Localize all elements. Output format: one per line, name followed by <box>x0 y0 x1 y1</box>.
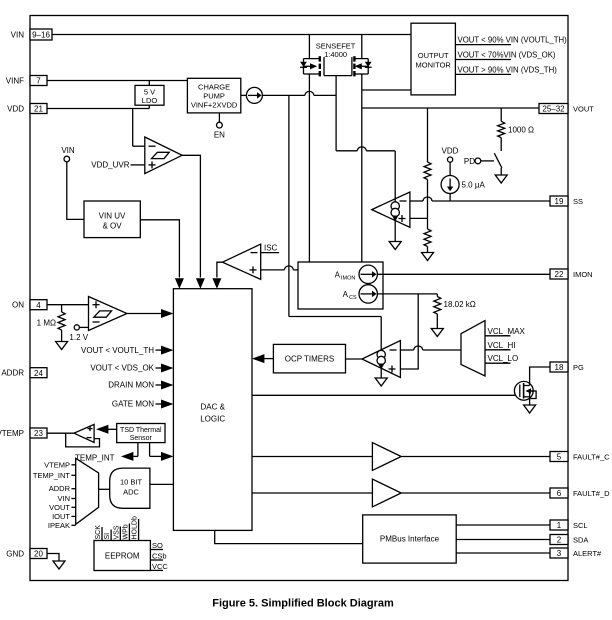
node GATE MON input label and arrow <box>112 400 173 409</box>
svg-text:/VTEMP: /VTEMP <box>0 429 24 438</box>
current source CP output arrow circle <box>241 87 263 103</box>
pin IMON 22 <box>550 269 593 279</box>
svg-text:22: 22 <box>555 270 564 279</box>
svg-text:ADDR: ADDR <box>1 369 24 378</box>
wire ON comparator output arrow into DAC <box>127 309 173 318</box>
resistor 18.02 kohm <box>434 294 441 329</box>
pin GND 20 <box>6 549 47 559</box>
svg-text:FAULT#_D: FAULT#_D <box>573 489 610 498</box>
terminal EN <box>217 113 223 128</box>
wire TSD drop right <box>149 443 151 457</box>
svg-text:ALERT#: ALERT# <box>573 549 602 558</box>
pin PG 18 <box>550 362 584 372</box>
wire LDO output to VDD rail <box>148 105 150 108</box>
node DRAIN MON input label and arrow <box>108 381 173 390</box>
wire ISC plus input to Acs block (hop over pump drop) <box>261 266 298 270</box>
pin EEPROM WPb <box>122 524 129 541</box>
node VOUTL_TH output with label <box>455 36 567 45</box>
svg-text:EN: EN <box>214 131 225 140</box>
block OCP timers <box>273 344 345 373</box>
pin SCL 1 <box>550 520 588 530</box>
pin SS 19 <box>550 196 583 206</box>
svg-text:Sensor: Sensor <box>130 435 153 442</box>
pin VIN 9-16 <box>11 29 52 40</box>
svg-text:VINF+2XVDD: VINF+2XVDD <box>191 101 238 110</box>
resistor 1 Mohm <box>58 305 65 342</box>
ground below U_SS <box>389 242 401 250</box>
wire Q3 drain to pin 18 <box>530 367 550 386</box>
sensefet label <box>316 42 356 60</box>
wire DAC to FAULT D buffer <box>252 492 372 494</box>
current source inside U_OCP <box>377 317 385 379</box>
svg-text:ISC: ISC <box>264 244 278 253</box>
svg-text:TEMP_INT: TEMP_INT <box>33 471 71 480</box>
terminal VDD for soft start source <box>442 147 459 176</box>
block TSD thermal sensor <box>117 424 165 443</box>
pin ADDR 24 <box>1 368 47 378</box>
ground below 18.02k <box>431 329 443 337</box>
svg-text:25–32: 25–32 <box>542 105 565 114</box>
svg-text:Figure 5. Simplified Block Dia: Figure 5. Simplified Block Diagram <box>212 598 394 610</box>
svg-text:VIN: VIN <box>61 146 75 155</box>
pin FAULT#_D 6 <box>550 488 610 498</box>
wire VDD_UVR output down to DAC <box>182 155 200 277</box>
svg-text:EEPROM: EEPROM <box>105 552 140 561</box>
wire VINF to LDO input <box>148 81 150 86</box>
svg-text:SO: SO <box>152 541 163 550</box>
ground below U_OCP <box>375 378 387 386</box>
wire FAULT D buffer to pin 6 <box>401 492 550 494</box>
svg-text:CHARGE: CHARGE <box>198 83 230 92</box>
svg-text:FAULT#_C: FAULT#_C <box>573 453 610 462</box>
wire VINF to charge pump <box>47 80 187 82</box>
svg-text:VTEMP: VTEMP <box>44 460 70 469</box>
svg-text:TSD Thermal: TSD Thermal <box>120 427 162 434</box>
svg-text:1 MΩ: 1 MΩ <box>37 319 56 328</box>
pin EEPROM SO <box>150 541 163 550</box>
transistor Q2 sense FET <box>352 56 368 76</box>
pin EEPROM SCK <box>95 525 102 541</box>
svg-text:CSb: CSb <box>152 552 167 561</box>
node TEMP_INT label with left arrow <box>75 452 138 463</box>
svg-text:A: A <box>343 290 349 299</box>
node VIN funnel input <box>57 494 75 503</box>
svg-text:VIN UV: VIN UV <box>99 212 126 221</box>
arrow into DAC top from ISC <box>212 278 221 289</box>
svg-text:VOUT < 70%VIN (VDS_OK): VOUT < 70%VIN (VDS_OK) <box>458 51 556 60</box>
svg-text:5: 5 <box>557 453 562 462</box>
svg-text:VOUT > 90% VIN (VDS_TH): VOUT > 90% VIN (VDS_TH) <box>458 65 558 74</box>
resistor divider upper from VOUT <box>424 108 431 218</box>
svg-text:7: 7 <box>36 77 41 86</box>
node VTEMP funnel input <box>44 460 76 469</box>
svg-text:9–16: 9–16 <box>32 31 50 40</box>
svg-text:VCL_LO: VCL_LO <box>488 354 519 363</box>
pin EEPROM CSb <box>150 552 166 561</box>
comparator U_SS soft start <box>372 192 410 227</box>
wire Q2 source down to VOUT and Acs block <box>361 74 363 262</box>
svg-text:VCC: VCC <box>152 562 168 571</box>
svg-text:5.0 µA: 5.0 µA <box>462 181 486 190</box>
svg-text:VSS: VSS <box>113 525 120 539</box>
ground below Q3 <box>524 405 536 413</box>
svg-text:SCL: SCL <box>573 521 588 530</box>
wire pin 23 to TSD comparator output <box>47 432 74 434</box>
block DAC and LOGIC <box>173 289 252 531</box>
wire funnel to ADC <box>99 488 110 490</box>
svg-text:GND: GND <box>6 550 24 559</box>
svg-text:MONITOR: MONITOR <box>416 61 452 70</box>
resistor 1000 ohm <box>498 108 505 151</box>
pin ALERT# 3 <box>550 548 602 558</box>
svg-text:10 BIT: 10 BIT <box>120 478 143 487</box>
wire PMBus to pin 2 <box>456 539 550 541</box>
node VOUT lt VOUTL_TH input label and arrow <box>81 346 173 355</box>
wire ISC output to DAC top <box>217 262 223 277</box>
node IPEAK funnel input <box>48 521 76 530</box>
svg-text:VOUT < 90% VIN (VOUTL_TH): VOUT < 90% VIN (VOUTL_TH) <box>458 36 568 45</box>
transistor Q1 main pass FET <box>304 56 325 76</box>
svg-text:SCK: SCK <box>95 525 102 540</box>
wire TSD comparator feedback loop <box>66 433 100 447</box>
svg-text:DAC &: DAC & <box>200 403 225 412</box>
svg-text:VDD: VDD <box>7 105 24 114</box>
wire Q1 source down to Acs block <box>308 74 310 262</box>
pin EEPROM VSS <box>113 525 120 540</box>
wire DAC bottom to PMBus <box>215 530 363 543</box>
svg-text:IPEAK: IPEAK <box>48 521 70 530</box>
mux VCL clamp select <box>461 321 485 376</box>
pin VINF 7 <box>6 76 47 86</box>
block U_CP charge pump <box>187 78 240 113</box>
wire OCP minus to VCL mux (hop over tap) <box>400 346 461 350</box>
arrow into DAC top from VDD_UVR <box>196 278 205 289</box>
svg-text:VDD: VDD <box>442 147 459 156</box>
wire DAC to PG FET gate <box>252 394 515 396</box>
wire ON pin to comparator plus <box>47 304 89 306</box>
svg-text:& OV: & OV <box>102 222 122 231</box>
wire left FET drain from VIN rail <box>308 35 310 59</box>
node VOUT funnel input <box>49 503 76 512</box>
wire OCP comparator output to OCP timers <box>346 358 363 360</box>
wire GND pin to ground <box>47 554 59 562</box>
wire TSD drop left <box>137 443 139 457</box>
svg-text:DRAIN MON: DRAIN MON <box>108 381 154 390</box>
node IOUT funnel input <box>52 512 76 521</box>
svg-text:VOUT < VOUTL_TH: VOUT < VOUTL_TH <box>81 346 154 355</box>
pin EEPROM VCC <box>150 562 168 571</box>
svg-text:WPb: WPb <box>122 524 129 539</box>
svg-text:PMBus Interface: PMBus Interface <box>380 535 440 544</box>
terminal PD <box>464 157 494 166</box>
svg-text:24: 24 <box>34 369 43 378</box>
svg-text:SDA: SDA <box>573 536 588 545</box>
svg-text:18.02 kΩ: 18.02 kΩ <box>444 300 476 309</box>
wire VOUT rail <box>362 107 539 109</box>
ground below divider <box>422 253 434 261</box>
comparator U_OCP <box>362 341 400 378</box>
svg-text:IOUT: IOUT <box>52 512 70 521</box>
current source 5.0 uA <box>441 176 459 202</box>
node VDS_TH output with label <box>455 65 557 74</box>
comparator U_UVR VDD_UVR <box>131 109 183 174</box>
amplifier A_IMON circle <box>359 265 377 283</box>
svg-text:VOUT: VOUT <box>573 105 594 114</box>
wire gate center tap down <box>335 76 337 151</box>
wire A_CS tap down to OCP plus input <box>400 294 418 369</box>
svg-text:VCL_HI: VCL_HI <box>488 341 516 350</box>
node ADDR funnel input <box>49 484 76 493</box>
svg-text:PUMP: PUMP <box>203 92 225 101</box>
svg-text:20: 20 <box>34 550 43 559</box>
svg-text:LDO: LDO <box>142 96 158 105</box>
wire PMBus to pin 1 <box>456 524 550 526</box>
svg-text:19: 19 <box>555 197 564 206</box>
svg-text:SI: SI <box>104 533 111 540</box>
svg-text:VOUT < VDS_OK: VOUT < VDS_OK <box>90 364 154 373</box>
buffer U_FC <box>372 443 401 471</box>
pin VTEMP 23 <box>0 428 47 438</box>
wire pump feed horizontal to OCP current source <box>289 316 381 318</box>
block EEPROM <box>94 541 150 571</box>
block output monitor <box>411 23 455 95</box>
wire Q2 source to output monitor <box>362 89 411 91</box>
wire charge pump output to gate node (hop over source line) <box>262 91 336 95</box>
wire TEMP_INT arrow into DAC <box>150 452 174 461</box>
node TEMP_INT funnel input <box>33 471 76 480</box>
svg-text:HOLDb: HOLDb <box>132 516 139 539</box>
pin EEPROM SI <box>104 530 111 541</box>
svg-text:1: 1 <box>557 521 562 530</box>
label ISC with stub <box>261 244 279 253</box>
svg-text:VINF: VINF <box>6 77 24 86</box>
comparator U_ISC <box>223 244 261 279</box>
wire PMBus to pin 3 <box>456 552 550 554</box>
comparator U_ON <box>89 297 128 331</box>
wire VDD rail <box>47 108 149 110</box>
svg-text:OCP TIMERS: OCP TIMERS <box>285 355 335 364</box>
svg-text:4: 4 <box>36 301 41 310</box>
terminal VIN sense <box>61 146 75 162</box>
svg-text:6: 6 <box>557 489 562 498</box>
svg-text:21: 21 <box>34 105 43 114</box>
svg-text:18: 18 <box>555 363 564 372</box>
mux ADC input funnel <box>76 458 99 524</box>
ground below 1 Mohm <box>56 342 68 350</box>
svg-text:ON: ON <box>12 301 24 310</box>
amplifier A_CS circle <box>359 285 377 303</box>
wire drop from pump line to OCP current source feed <box>288 95 290 316</box>
buffer U_FD <box>372 479 401 507</box>
ground symbol at GND pin <box>53 561 65 569</box>
wire VIN rail <box>52 34 411 36</box>
svg-text:ADDR: ADDR <box>49 484 71 493</box>
svg-text:PG: PG <box>573 363 584 372</box>
wire A_IMON output to pin 22 <box>377 273 550 275</box>
wire right FET drain from VIN rail <box>361 35 363 59</box>
wire SS comparator plus to divider tap <box>410 217 428 219</box>
node VDS_OK output with label <box>455 51 556 60</box>
pin SDA 2 <box>550 535 588 545</box>
pin ON 4 <box>12 300 47 310</box>
node VOUT lt VDS_OK input label and arrow <box>90 364 173 373</box>
svg-text:OUTPUT: OUTPUT <box>418 51 449 60</box>
wire VIN UV OV output down to DAC <box>140 220 179 278</box>
svg-text:VIN: VIN <box>57 494 70 503</box>
wire SS line from comparator minus to pin 19 (hop over divider) <box>410 197 550 201</box>
arrow into DAC top from VIN UV OV <box>175 278 184 289</box>
wire FAULT C buffer to pin 5 <box>401 456 550 458</box>
svg-text:GATE MON: GATE MON <box>112 400 154 409</box>
pin VOUT 25-32 <box>539 104 594 114</box>
resistor divider lower <box>424 218 431 252</box>
svg-text:A: A <box>335 270 341 279</box>
svg-text:IMON: IMON <box>573 270 593 279</box>
svg-text:PD: PD <box>464 157 475 166</box>
block current sense amplifiers <box>298 262 383 309</box>
svg-text:VIN: VIN <box>11 31 25 40</box>
wire shared gate U <box>324 75 352 77</box>
svg-text:23: 23 <box>34 429 43 438</box>
wire gate line to SS comparator (hop over sense line) <box>336 147 395 151</box>
wire VIN terminal to VIN UV OV block <box>67 162 84 220</box>
transistor Q3 PG open drain FET <box>514 381 536 404</box>
regulator U_LDO 5V LDO <box>135 85 164 105</box>
block PMBus interface <box>363 515 457 563</box>
pin FAULT#_C 5 <box>550 452 610 462</box>
svg-text:VDD_UVR: VDD_UVR <box>91 161 129 170</box>
node VCL_MAX with label <box>485 327 526 336</box>
wire OCP timers output arrow into DAC <box>252 354 273 363</box>
current source inside U_SS <box>391 151 399 242</box>
svg-text:1.2 V: 1.2 V <box>69 333 88 342</box>
switch PD pulldown <box>494 153 502 175</box>
pin EEPROM HOLDb <box>132 516 139 540</box>
diode D1 body diode of Q1 <box>300 62 307 68</box>
node VCL_LO with label <box>485 354 518 363</box>
svg-text:VCL_MAX: VCL_MAX <box>488 327 526 336</box>
svg-text:ADC: ADC <box>123 488 139 497</box>
comparator U_TSD buffer <box>74 424 94 442</box>
ground below PD switch <box>495 175 507 183</box>
svg-text:CS: CS <box>349 295 357 301</box>
block 10 bit ADC <box>110 468 150 508</box>
wire TSD sensor to comparator with arrow <box>96 425 117 434</box>
diode D2 body diode of Q2 <box>365 62 372 68</box>
wire ADC to DAC <box>150 483 174 485</box>
svg-text:IMON: IMON <box>341 275 355 281</box>
svg-text:1000 Ω: 1000 Ω <box>508 125 534 134</box>
block VIN UV and OV <box>84 201 140 238</box>
wire DAC to FAULT C buffer <box>252 456 372 458</box>
svg-text:2: 2 <box>557 536 562 545</box>
svg-text:VOUT: VOUT <box>49 503 70 512</box>
wire A_CS output to 18.02k resistor <box>377 293 437 295</box>
svg-text:1:4000: 1:4000 <box>324 50 347 59</box>
pin VDD 21 <box>7 104 47 114</box>
node VCL_HI with label <box>485 341 516 350</box>
terminal 1.2 V reference <box>69 325 88 342</box>
svg-text:SS: SS <box>573 197 583 206</box>
svg-text:LOGIC: LOGIC <box>200 415 225 424</box>
svg-text:3: 3 <box>557 549 562 558</box>
